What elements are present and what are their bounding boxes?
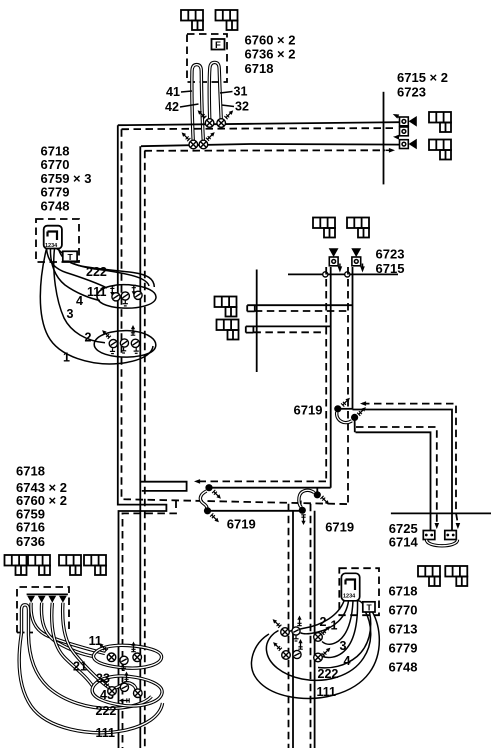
connector body 1234 BR [341,573,359,601]
pin triangle 4 [59,596,67,603]
wire 222 [28,630,151,709]
wire 11 [31,603,105,654]
bulb lamp 2 [217,119,226,128]
stub bar 1 dashed [255,310,348,312]
clip arrows above upper trio [106,284,118,296]
wire 4 BR [323,601,358,657]
run A solid vertical with jog [118,125,167,748]
stub bar 1 solid [247,305,352,311]
svg-text:6748: 6748 [389,660,418,675]
connector T box BR [358,601,363,604]
loop-back wire in box [22,605,29,633]
connector comb C6 [347,218,369,238]
connector comb C12 [84,555,106,575]
splice dot 1b [351,414,358,421]
terminal square S3 [400,140,409,149]
svg-text:6719: 6719 [294,403,323,418]
svg-text:1234: 1234 [343,594,356,600]
svg-text:3: 3 [340,639,347,653]
wire 3 BR [322,601,353,644]
wire 111 outer [19,633,162,733]
svg-text:111: 111 [87,285,107,299]
pin triangle 3 [48,596,56,603]
wire 33 [52,603,93,686]
svg-text:21: 21 [73,660,87,674]
body vertical line [256,270,258,373]
wire 3 [50,249,100,301]
node circle a [323,272,328,277]
splice dot 2b [204,507,211,514]
junction bus line [288,273,398,275]
connector comb T1 [181,10,203,30]
svg-text:6736 × 2: 6736 × 2 [245,47,296,62]
body line [391,512,491,514]
svg-text:6736: 6736 [16,534,45,549]
bulb lamp 3 [189,140,198,149]
splice dot 3a [314,491,321,498]
harness run B solid [141,144,400,146]
splice dot 3b [299,507,306,514]
down arrow at M1 [339,264,341,269]
svg-text:6723: 6723 [376,247,405,262]
connector box L [423,531,435,540]
terminal circles BR upper [281,628,290,637]
harness run B dashed [145,149,386,152]
clip arrows at junction 2 [212,490,221,499]
bracket stub solid [141,482,187,491]
svg-text:4: 4 [76,294,83,308]
long dashed link arrow [295,500,301,505]
svg-text:42: 42 [165,100,179,114]
run B solid vertical [139,146,141,748]
clip arrows BL upper [99,643,108,652]
connector comb C8 [217,320,239,340]
svg-text:6718: 6718 [389,584,418,599]
stub bar 2 solid [246,326,331,332]
svg-text:6748: 6748 [41,198,70,213]
terminal square S1 [400,117,409,126]
F label box [212,39,225,50]
svg-text:6718: 6718 [245,61,274,76]
solid link upper [209,487,331,489]
svg-text:6718: 6718 [16,464,45,479]
svg-text:31: 31 [234,85,248,99]
terminal circles BL lower trio [108,687,117,696]
connector T box [56,249,63,254]
svg-text:222: 222 [318,667,339,681]
connector comb T2 [216,10,238,30]
svg-text:6714: 6714 [389,535,419,550]
clip arrows BR upper [273,619,282,628]
hook arrow above S1 [396,115,399,118]
wire 43 [63,603,137,690]
dashed drop from M1 [325,267,327,481]
down arrow at M2 [362,264,364,269]
wire 222 [59,249,155,288]
svg-text:111: 111 [317,685,337,699]
svg-text:32: 32 [235,100,249,114]
svg-text:T: T [68,252,74,262]
center drop pair 2 dashed [310,504,312,748]
svg-text:6716: 6716 [16,520,45,535]
bulb lamp 1 [205,119,214,128]
harness run A solid (to right connectors) [118,122,400,125]
splice dot 2a [205,484,212,491]
connector dashed box [36,219,79,262]
wire 4 [47,249,108,289]
connector box R [445,531,457,540]
clip arrows at junction 3 [320,496,329,505]
run B dashed end arrow right [386,149,392,151]
right run inner dashed [356,427,437,523]
svg-text:6719: 6719 [227,517,256,532]
svg-text:6719: 6719 [325,520,354,535]
connector comb C10 [28,555,50,575]
terminal circles upper trio [112,293,120,301]
joint arc [299,490,314,507]
vertical body line [383,92,385,185]
svg-text:6760 × 2: 6760 × 2 [245,33,296,48]
loop around lower trio BL [92,676,162,706]
svg-text:6779: 6779 [389,641,418,656]
right run outer solid [353,410,453,531]
loop around upper trio [97,285,156,309]
harness run A dashed [122,128,398,129]
wire 2 BR [290,601,345,631]
pin triangle 1 [27,596,35,603]
triangle at S1 [409,116,417,127]
svg-text:F: F [215,40,221,51]
center drop pair 2 solid [314,511,316,748]
svg-text:2: 2 [85,331,92,345]
wire 1 big loop [40,249,153,364]
terminal square M1 [329,257,338,266]
wire from T [69,261,149,286]
clip arrows at bulbs [198,110,207,119]
svg-text:6770: 6770 [389,603,418,618]
terminal circles BR lower [282,651,291,660]
pin triangle 2 [38,596,46,603]
svg-text:6715 × 2: 6715 × 2 [397,70,448,85]
antenna triangle 2 [351,248,361,257]
loop around lower trio [94,331,156,357]
svg-text:111: 111 [96,726,116,740]
bulb loop wire left (41/42) [192,65,203,141]
right run outer dashed [362,404,456,513]
wire 1 BR [301,601,349,634]
joint arc [337,412,352,423]
svg-text:222: 222 [86,265,107,279]
clip arrows at junction 1 [341,398,350,407]
connector comb C3 [429,112,451,132]
wire 222 loop BR [266,610,370,680]
clip arrows BL lower [100,678,109,687]
svg-text:3: 3 [67,307,74,321]
link dot2 to inner run [354,417,356,432]
svg-text:4: 4 [344,654,351,668]
svg-text:11: 11 [89,634,102,648]
svg-text:222: 222 [96,704,117,718]
stub bar 2 dashed [253,331,326,333]
connector dashed box BR [339,568,379,615]
triangle at S3 [409,139,417,150]
connector comb C13 [418,566,440,586]
svg-text:6759 × 3: 6759 × 3 [41,171,92,186]
center drop pair 1 dashed [288,504,290,748]
svg-text:6713: 6713 [389,622,418,637]
wire 111 loop BR [251,608,379,698]
stub from solid link [316,488,318,492]
wire T loop BR [318,612,371,668]
terminal circles BL upper trio [107,653,116,662]
solid drop from M2 [352,267,354,410]
terminal square M2 [352,257,361,266]
svg-text:33: 33 [96,672,110,686]
jumper U [427,540,458,546]
connector comb C4 [429,140,451,160]
run B dashed vertical [144,151,146,748]
splice dot 1a [334,405,341,412]
center drop pair 1 solid [292,511,294,748]
svg-text:41: 41 [166,85,180,99]
svg-text:6723: 6723 [397,85,426,100]
right run inner solid [356,432,431,530]
terminal circles lower trio [109,340,117,348]
hook arrow below S2 [397,136,400,137]
multi-pin connector dashed box [17,587,69,633]
node circle b [345,272,350,277]
clip arrows BR lower [273,642,282,651]
antenna triangle 1 [329,248,339,257]
connector comb C5 [313,218,335,238]
solid link lower [208,510,302,512]
bulb loop wire right (31/32) [209,62,221,119]
connector comb C14 [445,566,467,586]
connector body 1234 [44,226,62,249]
dashed link with left arrow [199,480,327,482]
joint squiggle [200,491,206,510]
connector comb C11 [59,555,81,575]
connector comb C9 [5,555,27,575]
run A dashed vertical with jog [122,129,349,504]
bulb lamp 4 [199,140,208,149]
loop around upper trio BL [93,645,161,668]
svg-text:1: 1 [331,619,338,633]
terminal square S2 [400,127,409,136]
svg-text:1: 1 [63,351,70,365]
dashed drop from M2 [347,267,349,504]
wire 2 [54,249,105,343]
fuse box F dashed outline [187,34,227,82]
wire 21 [41,603,94,657]
connector comb C7 [215,297,237,317]
pin header bar [27,593,68,595]
clip arrows at lower trio [102,330,111,339]
svg-text:2: 2 [320,615,327,629]
solid drop from M1 [330,267,332,488]
svg-text:T: T [367,602,373,612]
stub to joint [338,408,353,410]
